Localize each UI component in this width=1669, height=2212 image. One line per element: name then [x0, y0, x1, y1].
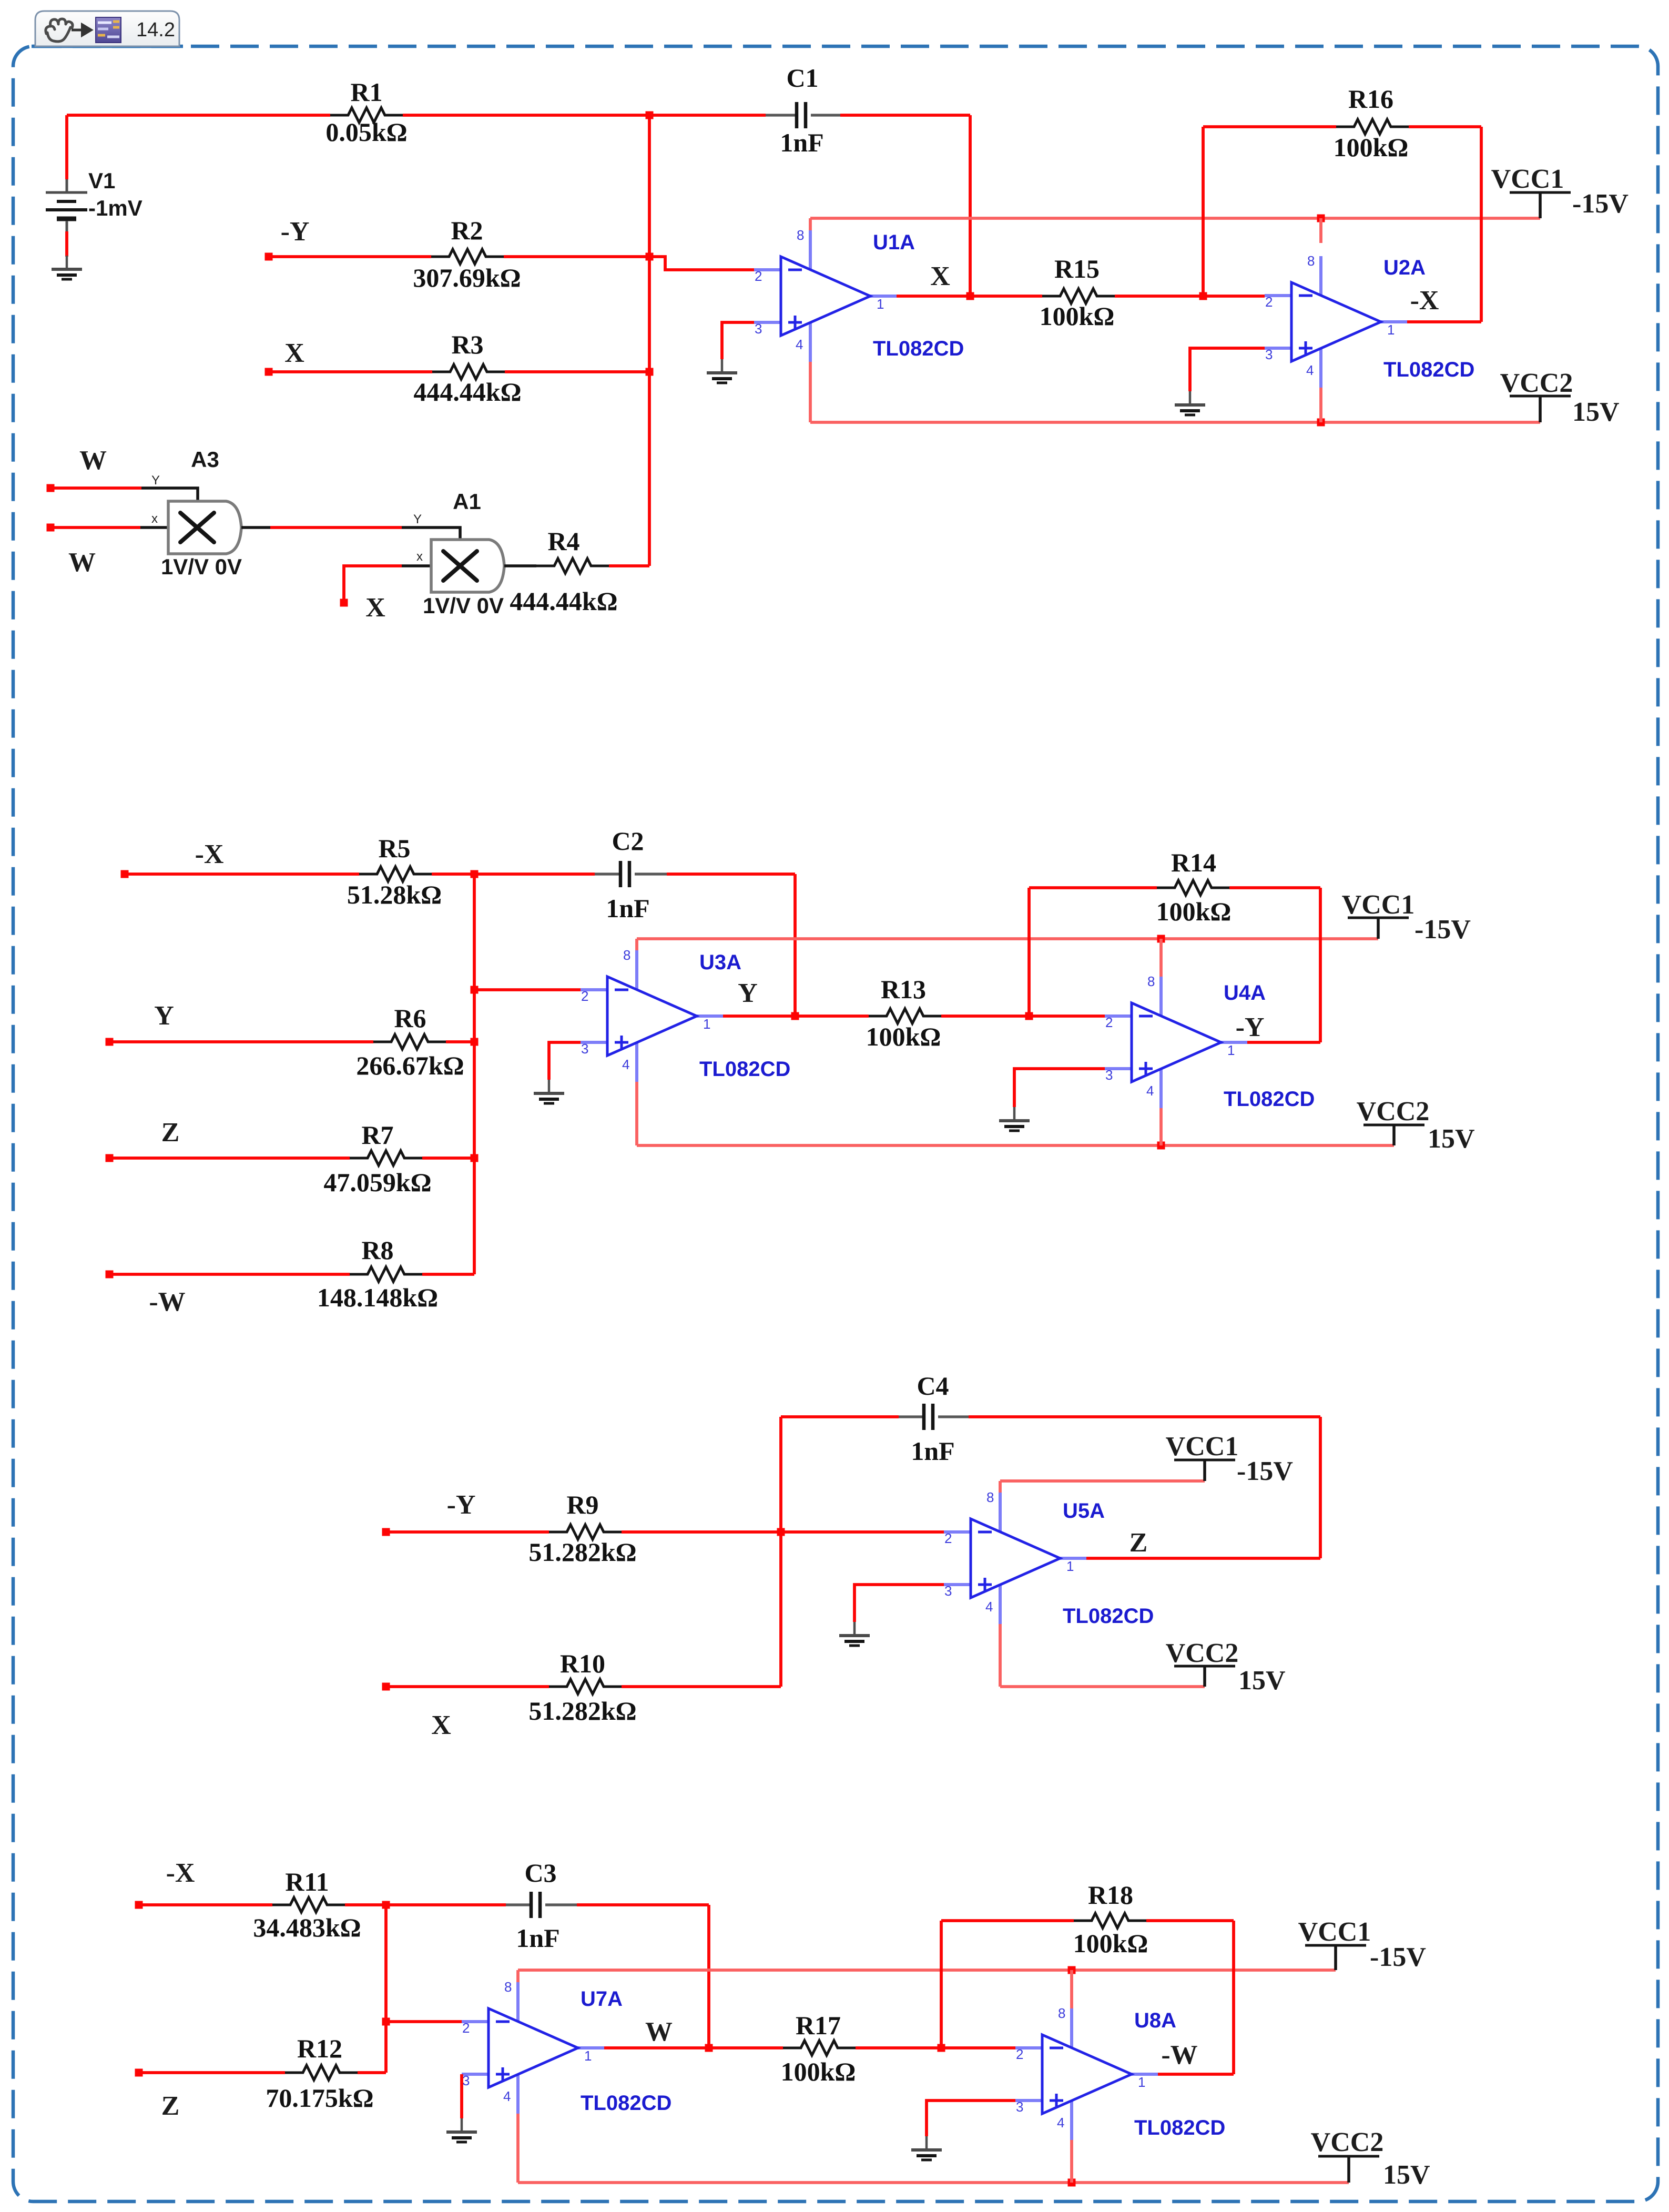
- svg-text:2: 2: [944, 1530, 952, 1546]
- op-amp U4A input stubs: [1105, 977, 1247, 1108]
- wire A1 x input lead: [402, 564, 431, 567]
- op-amp U1A +/- marks: [788, 270, 802, 329]
- svg-text:51.282kΩ: 51.282kΩ: [528, 1537, 636, 1567]
- wire C1 right lead: [811, 114, 840, 116]
- capacitor C1 plates: [797, 102, 806, 128]
- svg-text:V1: V1: [88, 168, 115, 193]
- svg-text:3: 3: [755, 321, 762, 337]
- svg-text:14.2: 14.2: [136, 19, 175, 41]
- resistor R7 body: [350, 1151, 422, 1165]
- svg-text:Y: Y: [738, 978, 758, 1008]
- wire U7A output to R17: [604, 2046, 783, 2049]
- svg-text:VCC1: VCC1: [1491, 164, 1564, 194]
- wire VCC1 stub section3: [1203, 1460, 1206, 1481]
- wire Z to R7: [109, 1156, 350, 1160]
- junction R6/vertical: [471, 1038, 479, 1046]
- svg-text:C3: C3: [524, 1858, 556, 1888]
- svg-text:Y: Y: [151, 473, 160, 488]
- svg-text:R7: R7: [361, 1120, 393, 1150]
- wire U7A noninverting input to ground: [460, 2074, 463, 2118]
- wire C1 down to node X: [969, 115, 972, 296]
- resistor R5 body: [359, 867, 432, 881]
- svg-text:100kΩ: 100kΩ: [1073, 1929, 1148, 1958]
- svg-text:8: 8: [986, 1489, 994, 1505]
- svg-text:VCC2: VCC2: [1166, 1638, 1239, 1668]
- op-amp U8A triangle: [1042, 2035, 1132, 2114]
- wire summing vertical section2: [473, 874, 476, 1274]
- svg-text:U7A: U7A: [581, 1987, 623, 2011]
- wire C2 left lead: [595, 872, 620, 875]
- wire C2 down to node Y: [793, 874, 797, 1016]
- svg-text:-W: -W: [1161, 2040, 1197, 2070]
- wire VCC2 rail section2: [637, 1144, 1394, 1147]
- op-amp U5A +/- marks: [978, 1532, 992, 1591]
- node -W terminal: [106, 1271, 114, 1279]
- op-amp U2A +/- marks: [1299, 296, 1312, 355]
- svg-text:15V: 15V: [1383, 2160, 1430, 2190]
- node Z terminal section4: [135, 2069, 143, 2077]
- svg-text:4: 4: [796, 337, 803, 352]
- wire -X to R5: [125, 872, 359, 876]
- svg-text:TL082CD: TL082CD: [1383, 358, 1474, 381]
- junction R11/vertical section4: [382, 1901, 390, 1909]
- op-amp U3A triangle: [607, 977, 697, 1056]
- svg-text:1: 1: [877, 296, 884, 312]
- wire X node to A1 x input: [344, 566, 402, 603]
- op-amp U7A +/- marks: [496, 2022, 510, 2081]
- wire R5 to C2: [432, 872, 595, 876]
- svg-text:-Y: -Y: [447, 1490, 476, 1520]
- resistor R3 body: [432, 364, 505, 379]
- svg-text:8: 8: [1058, 2005, 1065, 2021]
- svg-text:3: 3: [1105, 1067, 1113, 1083]
- wire W to A3 Y input: [50, 486, 141, 490]
- svg-text:Y: Y: [154, 1001, 174, 1031]
- wire R12 to vertical: [358, 2071, 386, 2074]
- svg-text:X: X: [431, 1710, 451, 1740]
- svg-text:-15V: -15V: [1237, 1456, 1293, 1486]
- wire R8 to vertical: [422, 1273, 474, 1276]
- svg-text:100kΩ: 100kΩ: [1156, 897, 1232, 926]
- junction R18 left leg: [938, 2044, 945, 2052]
- resistor R10 body: [549, 1679, 622, 1694]
- junction U4A pin8 on VCC1 rail: [1157, 935, 1165, 943]
- resistor R15 body: [1042, 289, 1115, 303]
- svg-text:2: 2: [1016, 2046, 1023, 2062]
- junction R7/vertical: [471, 1154, 479, 1162]
- resistor R6 body: [373, 1034, 446, 1049]
- wire V1 to R1: [67, 114, 330, 117]
- svg-text:1: 1: [1387, 322, 1395, 338]
- svg-text:1: 1: [1066, 1558, 1074, 1574]
- svg-text:X: X: [284, 338, 304, 368]
- junction R3/vertical: [646, 368, 654, 376]
- junction R14 left leg: [1025, 1012, 1033, 1020]
- svg-text:R1: R1: [350, 77, 382, 107]
- wire U5A output to C4: [1086, 1557, 1320, 1560]
- svg-text:R15: R15: [1054, 254, 1100, 283]
- wire VCC1 stub section4: [1334, 1945, 1337, 1970]
- wire -Y to R9: [386, 1530, 549, 1534]
- ground U2A noninverting: [1175, 391, 1205, 415]
- VCC2 section4 bar: [1318, 2155, 1379, 2158]
- resistor R17 body: [783, 2041, 856, 2055]
- svg-text:TL082CD: TL082CD: [699, 1058, 790, 1081]
- wire C2 to corner: [667, 872, 795, 876]
- svg-text:R11: R11: [285, 1867, 329, 1896]
- svg-text:100kΩ: 100kΩ: [1040, 301, 1115, 331]
- svg-text:U2A: U2A: [1383, 256, 1426, 279]
- VCC1 section1 bar: [1510, 191, 1571, 194]
- svg-text:-15V: -15V: [1414, 915, 1471, 945]
- svg-text:R6: R6: [394, 1003, 426, 1033]
- op-amp U2A triangle: [1291, 282, 1381, 361]
- wire C2 right lead: [635, 872, 667, 875]
- junction node R1/C1/vertical: [646, 111, 654, 119]
- svg-text:-15V: -15V: [1572, 189, 1629, 219]
- svg-text:15V: 15V: [1428, 1124, 1475, 1154]
- svg-text:C1: C1: [786, 63, 818, 93]
- svg-text:X: X: [930, 261, 950, 291]
- ground U4A noninverting: [999, 1107, 1030, 1131]
- wire A1 output lead: [504, 564, 536, 567]
- wire V1 top terminal: [65, 115, 68, 179]
- junction U2A pin4 on VCC2 rail: [1317, 419, 1325, 427]
- resistor R1 body: [330, 108, 403, 123]
- wire -Y to R2: [269, 255, 431, 258]
- op-amp U2A input stubs: [1265, 256, 1407, 388]
- junction U8A pin8 on VCC1 rail: [1068, 1966, 1076, 1974]
- svg-text:4: 4: [622, 1057, 629, 1072]
- svg-text:U4A: U4A: [1224, 981, 1266, 1004]
- wire W to A3 X input: [50, 526, 140, 529]
- node -X terminal section2: [121, 870, 129, 878]
- wire C4 left lead: [899, 1415, 924, 1418]
- node -Y terminal: [265, 253, 273, 261]
- wire A3 output to A1: [270, 526, 402, 529]
- wire R4 to summing vertical: [609, 564, 649, 567]
- wire R14 right horizontal: [1229, 886, 1320, 889]
- svg-text:R10: R10: [560, 1649, 605, 1678]
- wire U3A noninverting input to ground: [549, 1042, 581, 1080]
- arrow icon: [72, 25, 90, 35]
- wire C4 left vertical: [779, 1417, 782, 1687]
- svg-text:VCC2: VCC2: [1311, 2127, 1384, 2157]
- svg-text:TL082CD: TL082CD: [1134, 2116, 1225, 2139]
- wire R14 left horizontal: [1029, 886, 1157, 889]
- junction U2A pin8 on VCC1 rail: [1317, 215, 1325, 222]
- svg-text:15V: 15V: [1572, 397, 1620, 427]
- svg-text:444.44kΩ: 444.44kΩ: [413, 377, 521, 407]
- svg-text:U5A: U5A: [1063, 1499, 1105, 1523]
- svg-text:R8: R8: [361, 1235, 393, 1265]
- junction U4A pin4 on VCC2 rail: [1157, 1142, 1165, 1150]
- svg-text:1V/V 0V: 1V/V 0V: [423, 593, 504, 618]
- wire U3A pin8 to VCC1 rail: [635, 939, 638, 950]
- wire VCC1 rail section2: [637, 937, 1378, 940]
- multiplier A1 body: [431, 540, 504, 592]
- svg-text:R9: R9: [566, 1490, 598, 1519]
- VCC2 section2 bar: [1363, 1124, 1424, 1127]
- wire VCC1 rail section1: [810, 217, 1540, 220]
- wire C4 right horizontal: [969, 1415, 1320, 1418]
- resistor R9 body: [549, 1525, 622, 1539]
- svg-text:-X: -X: [195, 839, 224, 869]
- wire U8A noninverting input to ground: [927, 2101, 1015, 2136]
- wire VCC1 stub section1: [1539, 192, 1542, 218]
- wire R16 right horizontal: [1409, 125, 1481, 128]
- junction minus branch section4: [382, 2018, 390, 2026]
- ground U5A noninverting: [839, 1622, 870, 1646]
- svg-text:x: x: [151, 512, 158, 526]
- wire R18 left vertical: [940, 1921, 943, 2048]
- wire C4 left horizontal: [781, 1415, 899, 1418]
- junction node Y / C2: [791, 1012, 799, 1020]
- junction minus branch section2: [471, 986, 479, 994]
- wire to U7A inverting input: [386, 2020, 489, 2023]
- svg-text:W: W: [79, 445, 107, 475]
- resistor R13 body: [869, 1009, 941, 1023]
- svg-text:2: 2: [581, 988, 588, 1004]
- svg-text:70.175kΩ: 70.175kΩ: [266, 2083, 373, 2113]
- node -Y terminal section3: [382, 1528, 390, 1536]
- wire U1A output to R15: [897, 295, 1042, 298]
- svg-text:1nF: 1nF: [606, 894, 649, 923]
- multiplier A1 X mark: [443, 551, 477, 581]
- svg-text:0.05kΩ: 0.05kΩ: [325, 117, 407, 147]
- wire R16 right vertical: [1480, 127, 1483, 322]
- wire U3A pin4 to VCC2 rail: [635, 1082, 638, 1145]
- wire R2 to vertical: [504, 255, 649, 258]
- svg-text:-1mV: -1mV: [88, 196, 143, 220]
- svg-text:TL082CD: TL082CD: [581, 2092, 671, 2115]
- resistor R11 body: [272, 1898, 345, 1912]
- node -X terminal section4: [135, 1901, 143, 1909]
- wire U8A pin8 to VCC1 rail: [1070, 1970, 1073, 2008]
- op-amp U7A pin numbers: [462, 1979, 592, 2104]
- svg-text:3: 3: [1016, 2099, 1023, 2115]
- svg-text:C2: C2: [612, 826, 644, 856]
- svg-text:Z: Z: [1129, 1528, 1148, 1558]
- svg-text:x: x: [416, 550, 423, 564]
- wire U7A pin8 to VCC1 rail: [516, 1970, 520, 1982]
- svg-text:X: X: [365, 593, 385, 623]
- wire U4A pin4 to VCC2 rail: [1159, 1108, 1163, 1145]
- svg-text:VCC1: VCC1: [1298, 1917, 1371, 1947]
- svg-text:R17: R17: [796, 2011, 841, 2040]
- svg-text:-Y: -Y: [1236, 1012, 1265, 1042]
- junction R16 left leg: [1199, 292, 1207, 300]
- wire U8A pin4 to VCC2 rail: [1070, 2140, 1073, 2183]
- svg-text:U1A: U1A: [873, 231, 915, 254]
- resistor R14 body: [1157, 880, 1229, 895]
- multiplier A3 X mark: [180, 513, 214, 542]
- ground U1A noninverting: [707, 359, 737, 383]
- svg-text:-X: -X: [166, 1858, 195, 1888]
- wire U3A output to R13: [723, 1014, 869, 1018]
- wire U4A noninverting input to ground: [1014, 1069, 1105, 1107]
- svg-text:R3: R3: [451, 330, 483, 359]
- svg-text:3: 3: [1265, 347, 1273, 362]
- wire U4A pin8 to VCC1 rail: [1159, 939, 1163, 977]
- op-amp U5A pin numbers: [944, 1489, 1074, 1615]
- wire U2A pin8 to VCC1 rail: [1319, 218, 1322, 243]
- wire VCC1 rail section3: [1000, 1479, 1205, 1483]
- wire R14 left vertical: [1027, 888, 1031, 1016]
- wire VCC2 stub section1: [1539, 396, 1542, 422]
- wire U2A noninverting input to ground: [1190, 348, 1265, 391]
- svg-text:A1: A1: [453, 489, 481, 514]
- resistor R8 body: [350, 1267, 422, 1282]
- wire VCC2 stub section2: [1392, 1125, 1396, 1145]
- wire A3 X input lead: [140, 526, 169, 529]
- VCC1 section3 bar: [1174, 1459, 1235, 1462]
- capacitor C2 plates: [620, 861, 629, 887]
- wire VCC2 rail section4: [518, 2181, 1349, 2184]
- wire R13 to U4A inverting input: [941, 1014, 1105, 1018]
- wire U2A pin4 to VCC2 rail: [1319, 388, 1322, 422]
- wire R10 to C4 vertical: [622, 1685, 781, 1688]
- node X terminal at A1: [340, 599, 348, 607]
- op-amp U1A input stubs: [754, 230, 897, 362]
- junction node W / C3: [705, 2044, 713, 2052]
- wire R18 left horizontal: [941, 1919, 1074, 1922]
- svg-text:2: 2: [462, 2020, 470, 2036]
- wire X to R3: [269, 370, 432, 373]
- svg-text:R18: R18: [1088, 1880, 1133, 1910]
- op-amp U3A +/- marks: [615, 990, 628, 1049]
- svg-text:1: 1: [1227, 1042, 1235, 1058]
- svg-text:1V/V 0V: 1V/V 0V: [161, 554, 242, 579]
- svg-text:2: 2: [755, 268, 762, 284]
- wire C1 to corner: [840, 114, 970, 117]
- wire C1 left lead: [766, 114, 797, 116]
- VCC1 section4 bar: [1305, 1944, 1366, 1947]
- wire R18 right vertical: [1232, 1921, 1235, 2074]
- wire summing node vertical: [648, 115, 651, 566]
- junction R2/vertical: [646, 253, 654, 261]
- svg-text:148.148kΩ: 148.148kΩ: [317, 1283, 438, 1312]
- wire U1A pin4 to VCC2 rail: [809, 362, 812, 422]
- op-amp U1A triangle: [781, 257, 870, 336]
- op-amp U4A triangle: [1132, 1003, 1221, 1082]
- node Z terminal section2: [106, 1154, 114, 1162]
- svg-text:1: 1: [703, 1016, 710, 1032]
- wire R15 to U2A inverting input: [1115, 295, 1265, 298]
- wire R6 to vertical: [446, 1040, 474, 1043]
- svg-text:TL082CD: TL082CD: [1224, 1088, 1315, 1111]
- wire R16 left horizontal: [1203, 125, 1336, 128]
- svg-text:U8A: U8A: [1134, 2009, 1176, 2032]
- svg-text:3: 3: [944, 1583, 952, 1599]
- resistor R16 body: [1336, 119, 1409, 134]
- resistor R12 body: [285, 2065, 358, 2080]
- svg-text:Z: Z: [161, 1118, 180, 1148]
- resistor R18 body: [1074, 1913, 1146, 1928]
- svg-text:Y: Y: [413, 512, 422, 526]
- svg-text:4: 4: [503, 2088, 511, 2104]
- svg-text:2: 2: [1265, 294, 1273, 310]
- svg-text:TL082CD: TL082CD: [1063, 1605, 1154, 1628]
- node Y terminal: [106, 1038, 114, 1046]
- svg-text:R4: R4: [547, 526, 579, 556]
- resistor R4 body: [536, 559, 609, 573]
- svg-text:-Y: -Y: [281, 217, 310, 247]
- svg-text:C4: C4: [917, 1371, 949, 1401]
- svg-text:R12: R12: [297, 2034, 342, 2063]
- wire A3 Y input lead: [141, 488, 198, 502]
- spreadsheet icon: [96, 17, 121, 43]
- svg-text:TL082CD: TL082CD: [873, 337, 964, 360]
- op-amp U4A +/- marks: [1139, 1016, 1153, 1075]
- ground below V1: [52, 256, 82, 279]
- svg-text:47.059kΩ: 47.059kΩ: [323, 1168, 431, 1197]
- VCC2 section3 bar: [1174, 1665, 1235, 1668]
- wire V1 bottom terminal: [65, 231, 68, 257]
- wire R9 to U5A inverting input: [622, 1530, 944, 1534]
- svg-text:34.483kΩ: 34.483kΩ: [253, 1913, 361, 1942]
- wire R17 to U8A inverting input: [856, 2046, 1015, 2049]
- resistor R2 body: [431, 249, 504, 264]
- wire C3 to corner: [577, 1903, 709, 1906]
- wire U4A output to R14: [1247, 1041, 1320, 1044]
- svg-text:100kΩ: 100kΩ: [866, 1022, 941, 1051]
- op-amp U5A triangle: [971, 1519, 1060, 1598]
- svg-text:4: 4: [1057, 2115, 1064, 2130]
- wire C3 down to node W: [707, 1905, 710, 2048]
- svg-text:8: 8: [623, 947, 630, 963]
- wire VCC2 stub section4: [1347, 2156, 1350, 2183]
- op-amp U2A pin numbers: [1265, 253, 1395, 378]
- wire U1A noninverting input to ground: [722, 322, 754, 359]
- svg-text:4: 4: [1306, 362, 1314, 378]
- op-amp U8A input stubs: [1015, 2008, 1158, 2140]
- wire VCC2 stub section3: [1203, 1666, 1206, 1687]
- op-amp U1A pin numbers: [755, 227, 884, 352]
- wire C3 left lead: [506, 1903, 531, 1906]
- wire A3 output lead: [241, 526, 270, 529]
- wire to U3A inverting input: [474, 988, 607, 991]
- svg-text:3: 3: [462, 2073, 470, 2088]
- multiplier A3 body: [168, 501, 241, 554]
- wire R14 right vertical: [1319, 888, 1322, 1042]
- svg-text:-W: -W: [149, 1287, 185, 1317]
- hand icon: [46, 19, 73, 42]
- svg-text:8: 8: [504, 1979, 512, 1995]
- svg-text:4: 4: [985, 1599, 993, 1615]
- wire U5A noninverting input to ground: [854, 1585, 944, 1622]
- svg-text:R5: R5: [378, 834, 410, 863]
- svg-text:U3A: U3A: [699, 951, 741, 974]
- svg-text:100kΩ: 100kΩ: [1334, 133, 1409, 162]
- wire -W to R8: [109, 1273, 350, 1276]
- wire C4 right lead: [938, 1415, 969, 1418]
- svg-text:R13: R13: [881, 975, 926, 1004]
- svg-text:R16: R16: [1348, 84, 1393, 114]
- op-amp U3A pin numbers: [581, 947, 710, 1072]
- svg-text:1nF: 1nF: [516, 1923, 559, 1953]
- op-amp U7A input stubs: [462, 1982, 604, 2114]
- junction C4 vertical / R9 line: [777, 1528, 785, 1536]
- wire X to R10: [386, 1685, 549, 1688]
- svg-text:VCC1: VCC1: [1342, 890, 1415, 920]
- svg-text:100kΩ: 100kΩ: [781, 2057, 856, 2086]
- capacitor C4 plates: [924, 1404, 933, 1430]
- svg-text:R2: R2: [451, 216, 483, 245]
- svg-text:A3: A3: [191, 447, 219, 472]
- svg-text:2: 2: [1105, 1014, 1113, 1030]
- svg-text:8: 8: [1147, 973, 1155, 989]
